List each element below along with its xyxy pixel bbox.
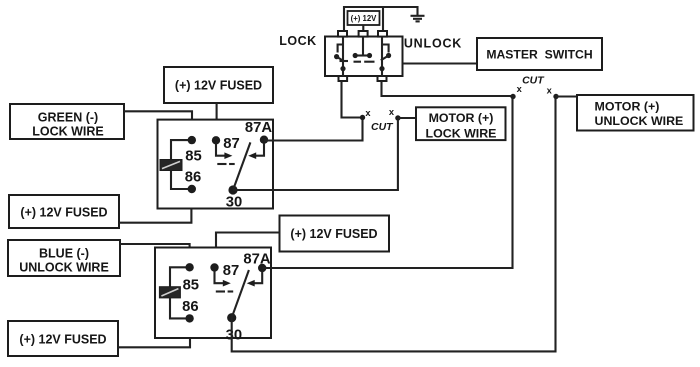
relay K2 contact arrows [215, 271, 263, 287]
svg-text:85: 85 [185, 148, 201, 164]
svg-text:86: 86 [182, 299, 198, 315]
motor (+) unlock wire box [577, 95, 694, 131]
relay K1 pin 87 [212, 136, 240, 152]
relay K2 pin 86 [182, 299, 198, 323]
wire: master switch left pole down to cut [342, 81, 361, 118]
green lock wire label box [10, 104, 124, 139]
master switch U1 body [325, 31, 403, 81]
(+) 12V fused box 1 [164, 67, 273, 103]
svg-text:UNLOCK WIRE: UNLOCK WIRE [19, 261, 109, 275]
svg-text:UNLOCK WIRE: UNLOCK WIRE [595, 114, 684, 128]
relay K1 pin 87A [245, 120, 272, 144]
svg-text:(+) 12V: (+) 12V [351, 14, 378, 23]
svg-text:MASTER SWITCH: MASTER SWITCH [486, 48, 592, 62]
wire: fused box 4 to relay2 pin 86 [118, 318, 190, 347]
wire: cut B to motor unlock box [556, 95, 577, 97]
svg-text:(+) 12V FUSED: (+) 12V FUSED [20, 206, 107, 220]
svg-text:LOCK: LOCK [279, 34, 316, 48]
wire: green box to relay1 pin 85 [124, 111, 192, 140]
svg-text:86: 86 [185, 170, 201, 186]
svg-text:x: x [389, 107, 395, 117]
svg-text:30: 30 [226, 327, 242, 343]
master switch left contact [334, 37, 348, 77]
relay K1 pin 30 [226, 185, 242, 210]
wire: relay K1 pin 30 to cut A right [233, 120, 398, 190]
motor (+) lock wire box [416, 107, 506, 140]
wire: cut A to motor lock box [398, 117, 416, 119]
relay K1 pin 86 [185, 170, 201, 194]
svg-text:MOTOR (+): MOTOR (+) [429, 111, 494, 125]
relay K2 dashed line [216, 290, 233, 292]
svg-text:30: 30 [226, 195, 242, 211]
(+) 12V fused box 4 [8, 321, 118, 356]
wire: master switch right pole down to cut [382, 81, 512, 96]
label UNLOCK [404, 37, 462, 51]
relay K2 pin 87 [210, 263, 239, 279]
wire: switch to master switch box [403, 62, 478, 64]
svg-text:85: 85 [183, 277, 199, 293]
relay K2 armature lever [232, 270, 249, 318]
svg-text:87: 87 [223, 263, 239, 279]
svg-text:87: 87 [223, 136, 239, 152]
wire: fused box 3 to relay2 pin 87 [216, 233, 280, 268]
svg-text:(+) 12V FUSED: (+) 12V FUSED [290, 227, 377, 241]
relay K1 body [158, 120, 274, 209]
wire: relay K2 pin 30 to cut B right [232, 98, 556, 351]
relay K2 pin 87A [243, 251, 270, 272]
svg-text:UNLOCK: UNLOCK [404, 37, 462, 51]
svg-text:(+) 12V FUSED: (+) 12V FUSED [175, 78, 262, 92]
label LOCK [279, 34, 316, 48]
master switch label box [477, 38, 602, 70]
wire: master switch top bus to ground [344, 7, 418, 32]
svg-text:LOCK WIRE: LOCK WIRE [426, 126, 497, 140]
ground [411, 16, 425, 22]
relay K1 armature lever [233, 142, 250, 190]
relay K1 contact arrows [216, 143, 264, 159]
svg-text:CUT: CUT [371, 121, 394, 133]
cut point A (lock motor wire) [360, 107, 401, 133]
master switch rocker common [353, 37, 375, 62]
svg-text:LOCK WIRE: LOCK WIRE [32, 125, 104, 139]
relay K2 body [155, 248, 271, 339]
(+) 12V fused box 2 [9, 195, 119, 228]
relay K2 pin 30 [226, 313, 242, 343]
svg-text:CUT: CUT [522, 75, 545, 87]
relay K1 coil [160, 140, 192, 189]
relay K1 pin 85 [185, 136, 201, 164]
blue unlock wire label box [8, 240, 120, 276]
cut point B (unlock motor wire) [510, 75, 558, 100]
wire: relay K1 pin 87A to cut A [264, 120, 363, 141]
wire: blue box to relay2 pin 85 [120, 244, 190, 267]
relay K2 pin 85 [183, 263, 199, 293]
svg-text:x: x [547, 85, 553, 95]
wire: fused box 2 to relay1 pin 86 [119, 189, 191, 223]
(+) 12V supply box [348, 11, 380, 32]
svg-text:BLUE (-): BLUE (-) [39, 246, 89, 260]
svg-text:(+) 12V FUSED: (+) 12V FUSED [19, 332, 106, 346]
svg-text:87A: 87A [243, 251, 270, 267]
master switch right contact [379, 37, 391, 77]
(+) 12V fused box 3 [280, 216, 390, 252]
relay K2 coil [159, 267, 189, 318]
wire: relay K2 pin 87A to cut B left [262, 98, 512, 268]
svg-text:GREEN (-): GREEN (-) [38, 110, 98, 124]
wire: fused box 1 to relay1 pin 87 [216, 103, 218, 140]
svg-text:MOTOR (+): MOTOR (+) [595, 99, 660, 113]
svg-text:87A: 87A [245, 120, 272, 136]
relay K1 dashed line [217, 163, 234, 165]
svg-text:x: x [365, 108, 371, 118]
